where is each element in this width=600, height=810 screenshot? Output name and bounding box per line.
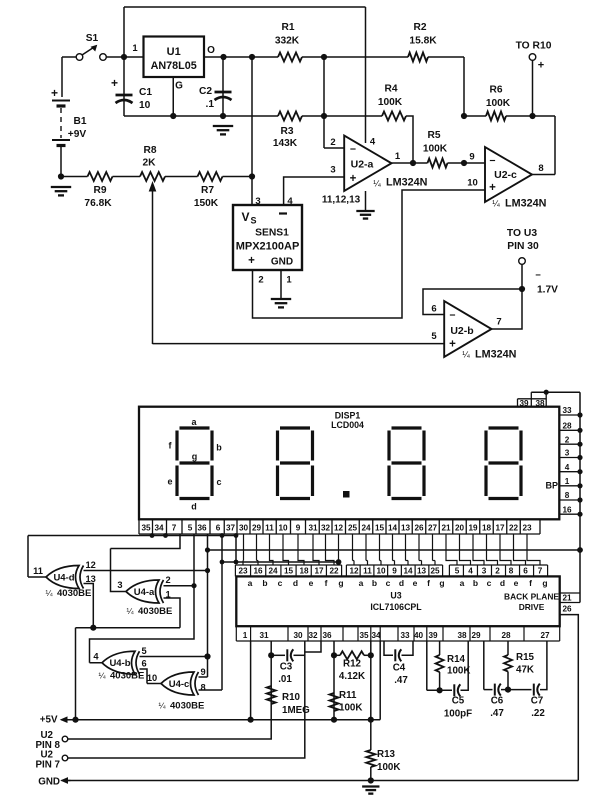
svg-text:.47: .47 (394, 675, 408, 686)
svg-text:R13: R13 (377, 749, 396, 760)
svg-text:5: 5 (455, 567, 460, 576)
svg-text:PIN 7: PIN 7 (35, 760, 60, 771)
svg-text:c: c (278, 578, 283, 588)
svg-text:4: 4 (93, 652, 99, 662)
svg-text:28: 28 (501, 631, 511, 640)
svg-text:1: 1 (132, 43, 138, 54)
svg-text:4030BE: 4030BE (110, 671, 144, 682)
svg-text:38: 38 (535, 399, 545, 408)
svg-text:4030BE: 4030BE (57, 588, 91, 599)
svg-text:29: 29 (252, 524, 262, 533)
svg-text:C2: C2 (199, 86, 212, 97)
svg-text:12: 12 (349, 567, 359, 576)
svg-text:3: 3 (482, 567, 487, 576)
svg-text:+9V: +9V (68, 129, 87, 140)
svg-text:3: 3 (565, 449, 570, 458)
svg-text:G: G (175, 81, 183, 92)
svg-text:10: 10 (376, 567, 386, 576)
svg-text:−: − (449, 310, 455, 322)
svg-text:2K: 2K (142, 158, 156, 169)
svg-text:AN78L05: AN78L05 (151, 60, 197, 72)
svg-text:39: 39 (519, 399, 529, 408)
svg-text:11: 11 (363, 567, 372, 576)
svg-text:U4-b: U4-b (109, 658, 130, 669)
svg-text:R15: R15 (516, 652, 535, 663)
svg-text:32: 32 (308, 631, 318, 640)
svg-text:1: 1 (395, 151, 401, 162)
svg-text:1: 1 (286, 275, 292, 286)
svg-text:11: 11 (33, 566, 43, 576)
svg-text:B1: B1 (73, 116, 86, 127)
svg-text:35: 35 (359, 631, 369, 640)
svg-text:10: 10 (467, 178, 478, 189)
svg-text:13: 13 (401, 524, 411, 533)
svg-text:8: 8 (201, 683, 206, 693)
svg-text:14: 14 (403, 567, 413, 576)
svg-text:100K: 100K (339, 703, 362, 714)
svg-text:16: 16 (562, 505, 572, 514)
svg-text:U4-d: U4-d (53, 573, 74, 584)
svg-text:.47: .47 (490, 708, 504, 719)
svg-text:31: 31 (259, 631, 269, 640)
svg-text:11,12,13: 11,12,13 (322, 195, 361, 206)
svg-text:.22: .22 (531, 708, 545, 719)
svg-text:23: 23 (238, 567, 248, 576)
svg-text:BACK PLANE: BACK PLANE (504, 592, 559, 602)
svg-text:8: 8 (565, 491, 570, 500)
svg-text:b: b (473, 578, 478, 588)
svg-text:d: d (500, 578, 505, 588)
svg-text:30: 30 (239, 524, 249, 533)
svg-text:2: 2 (565, 435, 570, 444)
svg-text:C3: C3 (280, 662, 293, 673)
svg-text:27: 27 (428, 524, 438, 533)
svg-text:4: 4 (287, 196, 293, 207)
svg-text:7: 7 (538, 567, 543, 576)
svg-text:R11: R11 (339, 690, 357, 701)
svg-text:7: 7 (496, 317, 501, 328)
svg-text:13: 13 (417, 567, 427, 576)
svg-text:R8: R8 (143, 145, 156, 156)
svg-text:1: 1 (243, 631, 248, 640)
svg-text:f: f (325, 578, 328, 588)
svg-text:14: 14 (388, 524, 398, 533)
svg-text:R4: R4 (384, 84, 397, 95)
svg-text:27: 27 (540, 631, 550, 640)
svg-text:TO R10: TO R10 (516, 41, 552, 52)
svg-text:R9: R9 (93, 185, 106, 196)
svg-text:22: 22 (329, 567, 339, 576)
svg-text:g: g (338, 578, 343, 588)
svg-text:O: O (207, 45, 215, 56)
svg-text:U1: U1 (167, 46, 181, 58)
svg-text:¼: ¼ (98, 671, 106, 681)
svg-text:17: 17 (495, 524, 505, 533)
svg-text:R2: R2 (413, 22, 426, 33)
svg-text:9: 9 (296, 524, 301, 533)
svg-text:100K: 100K (486, 98, 511, 109)
svg-text:e: e (413, 578, 418, 588)
svg-text:12: 12 (86, 560, 96, 570)
svg-text:5: 5 (142, 646, 147, 656)
svg-text:100K: 100K (423, 144, 448, 155)
svg-text:24: 24 (361, 524, 371, 533)
svg-text:3: 3 (255, 196, 260, 207)
svg-text:V: V (242, 210, 250, 224)
svg-text:34: 34 (371, 631, 381, 640)
svg-text:25: 25 (348, 524, 358, 533)
svg-text:¼: ¼ (492, 199, 500, 209)
svg-text:35: 35 (141, 524, 151, 533)
svg-text:R1: R1 (281, 22, 294, 33)
svg-text:2: 2 (330, 137, 335, 148)
svg-text:LM324N: LM324N (505, 198, 547, 210)
svg-text:¼: ¼ (45, 588, 53, 598)
svg-text:¼: ¼ (158, 701, 166, 711)
svg-text:29: 29 (471, 631, 481, 640)
svg-text:9: 9 (392, 567, 397, 576)
svg-text:13: 13 (86, 574, 96, 584)
svg-text:9: 9 (469, 152, 474, 163)
svg-text:d: d (191, 502, 197, 512)
svg-text:GND: GND (271, 257, 293, 268)
svg-text:U2-c: U2-c (494, 169, 517, 181)
svg-text:22: 22 (509, 524, 519, 533)
svg-text:+: + (538, 60, 544, 72)
svg-text:19: 19 (468, 524, 478, 533)
svg-text:.01: .01 (278, 674, 292, 685)
svg-text:e: e (514, 578, 519, 588)
svg-text:¼: ¼ (126, 606, 134, 616)
svg-text:332K: 332K (275, 36, 300, 47)
svg-text:10: 10 (278, 524, 288, 533)
svg-text:c: c (216, 477, 221, 487)
svg-text:PIN 30: PIN 30 (507, 241, 539, 252)
svg-text:36: 36 (322, 631, 332, 640)
svg-text:c: c (487, 578, 492, 588)
svg-text:e: e (309, 578, 314, 588)
svg-text:U4-a: U4-a (134, 587, 155, 598)
svg-text:a: a (460, 578, 465, 588)
svg-text:47K: 47K (516, 665, 534, 676)
svg-text:5: 5 (188, 524, 193, 533)
svg-text:f: f (427, 578, 430, 588)
svg-text:17: 17 (314, 567, 324, 576)
svg-text:R3: R3 (280, 126, 293, 137)
svg-text:b: b (372, 578, 377, 588)
svg-text:S: S (251, 216, 257, 226)
svg-text:−: − (489, 155, 495, 167)
svg-text:C5: C5 (452, 696, 465, 707)
svg-text:36: 36 (197, 524, 207, 533)
svg-text:R7: R7 (201, 185, 214, 196)
svg-text:+: + (248, 255, 255, 267)
svg-text:a: a (359, 578, 364, 588)
svg-text:100K: 100K (377, 762, 400, 773)
svg-text:+: + (350, 173, 357, 185)
svg-text:¼: ¼ (373, 179, 381, 189)
svg-text:GND: GND (38, 777, 60, 788)
svg-text:U3: U3 (390, 591, 401, 601)
svg-text:C1: C1 (139, 87, 152, 98)
svg-text:16: 16 (253, 567, 263, 576)
svg-text:31: 31 (308, 524, 318, 533)
svg-text:21: 21 (562, 593, 572, 602)
svg-text:10: 10 (139, 100, 151, 111)
svg-text:10: 10 (147, 673, 157, 683)
svg-text:R12: R12 (343, 659, 362, 670)
svg-text:100pF: 100pF (444, 709, 472, 720)
svg-text:LM324N: LM324N (475, 349, 517, 361)
svg-text:33: 33 (562, 406, 572, 415)
svg-text:15: 15 (284, 567, 294, 576)
svg-text:30: 30 (293, 631, 303, 640)
svg-text:R10: R10 (282, 692, 301, 703)
svg-text:6: 6 (523, 567, 528, 576)
svg-text:150K: 150K (194, 198, 219, 209)
svg-text:LCD004: LCD004 (331, 420, 364, 430)
svg-text:39: 39 (428, 631, 438, 640)
svg-text:R5: R5 (427, 130, 440, 141)
svg-text:2: 2 (166, 575, 171, 585)
svg-text:¼: ¼ (462, 350, 470, 360)
svg-text:11: 11 (265, 524, 274, 533)
svg-text:1: 1 (565, 477, 570, 486)
svg-text:1.7V: 1.7V (537, 285, 558, 296)
svg-text:C7: C7 (531, 696, 544, 707)
svg-text:28: 28 (562, 422, 572, 431)
svg-text:37: 37 (226, 524, 236, 533)
svg-text:100K: 100K (378, 97, 403, 108)
svg-text:g: g (439, 578, 444, 588)
svg-text:100K: 100K (447, 666, 470, 677)
svg-text:25: 25 (430, 567, 440, 576)
svg-text:12: 12 (334, 524, 344, 533)
svg-text:a: a (248, 578, 253, 588)
svg-text:8: 8 (538, 163, 543, 174)
svg-text:TO U3: TO U3 (507, 228, 537, 239)
svg-text:33: 33 (400, 631, 410, 640)
svg-text:ICL7106CPL: ICL7106CPL (370, 602, 422, 612)
svg-text:b: b (262, 578, 267, 588)
svg-text:R14: R14 (447, 654, 466, 665)
svg-text:9: 9 (201, 667, 206, 677)
svg-text:40: 40 (414, 631, 424, 640)
svg-text:U2-a: U2-a (351, 159, 374, 171)
svg-text:4: 4 (468, 567, 473, 576)
svg-text:2: 2 (495, 567, 500, 576)
svg-text:32: 32 (321, 524, 331, 533)
svg-text:4030BE: 4030BE (138, 606, 172, 617)
svg-text:24: 24 (268, 567, 278, 576)
svg-text:LM324N: LM324N (386, 177, 428, 189)
svg-text:6: 6 (431, 304, 436, 315)
svg-text:8: 8 (509, 567, 514, 576)
svg-text:18: 18 (299, 567, 309, 576)
svg-text:23: 23 (522, 524, 532, 533)
svg-text:d: d (293, 578, 298, 588)
svg-text:−: − (350, 144, 356, 156)
svg-text:6: 6 (142, 659, 147, 669)
svg-text:15: 15 (375, 524, 385, 533)
svg-text:38: 38 (457, 631, 467, 640)
svg-text:f: f (529, 578, 532, 588)
svg-text:4.12K: 4.12K (339, 671, 365, 682)
svg-text:.1: .1 (206, 99, 215, 110)
svg-text:d: d (399, 578, 404, 588)
svg-text:SENS1: SENS1 (255, 228, 289, 239)
svg-text:C6: C6 (491, 696, 504, 707)
svg-text:U2-b: U2-b (450, 325, 473, 337)
svg-text:g: g (192, 452, 198, 462)
svg-text:1MEG: 1MEG (282, 705, 310, 716)
svg-text:2: 2 (258, 275, 263, 286)
svg-text:DISP1: DISP1 (335, 411, 361, 421)
svg-text:+: + (51, 86, 58, 100)
svg-text:143K: 143K (273, 138, 298, 149)
svg-text:4: 4 (370, 137, 376, 148)
svg-text:g: g (542, 578, 547, 588)
svg-text:MPX2100AP: MPX2100AP (236, 241, 300, 253)
svg-text:20: 20 (455, 524, 465, 533)
svg-text:18: 18 (482, 524, 492, 533)
svg-text:DRIVE: DRIVE (519, 602, 545, 612)
svg-text:3: 3 (117, 580, 122, 590)
svg-text:b: b (216, 443, 222, 453)
svg-text:R6: R6 (489, 85, 502, 96)
svg-text:+: + (489, 182, 496, 194)
svg-text:5: 5 (431, 331, 437, 342)
svg-text:−: − (535, 270, 541, 281)
svg-text:+: + (449, 339, 456, 351)
svg-text:7: 7 (172, 524, 177, 533)
svg-text:4: 4 (565, 463, 570, 472)
svg-text:76.8K: 76.8K (84, 198, 112, 209)
svg-text:26: 26 (562, 605, 572, 614)
svg-text:BP: BP (545, 481, 558, 491)
svg-text:U4-c: U4-c (169, 679, 190, 690)
svg-text:+: + (111, 76, 118, 90)
svg-text:15.8K: 15.8K (409, 36, 437, 47)
svg-text:+5V: +5V (40, 715, 58, 726)
svg-text:3: 3 (330, 165, 335, 176)
svg-text:6: 6 (216, 524, 221, 533)
svg-text:C4: C4 (393, 663, 406, 674)
svg-text:4030BE: 4030BE (170, 701, 204, 712)
svg-text:c: c (386, 578, 391, 588)
svg-text:e: e (167, 477, 172, 487)
svg-text:34: 34 (154, 524, 164, 533)
svg-text:26: 26 (414, 524, 424, 533)
svg-text:21: 21 (441, 524, 451, 533)
svg-text:S1: S1 (86, 33, 99, 44)
